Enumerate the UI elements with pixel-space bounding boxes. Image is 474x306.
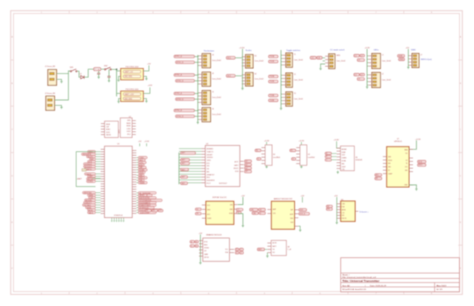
wire stubs buttons row 1 [197, 55, 200, 57]
svg-text:7690E0: 7690E0 [204, 248, 209, 250]
fuse F1 [94, 68, 101, 71]
global label LED2A [354, 73, 360, 76]
svg-text:CC mode switch: CC mode switch [330, 49, 345, 52]
connector J7 SWD [412, 53, 419, 67]
svg-text:U6: U6 [355, 157, 357, 159]
svg-text:Toggle switches: Toggle switches [286, 49, 300, 52]
svg-text:5PEMETK7: 5PEMETK7 [207, 174, 215, 176]
global label BTN4_B [176, 115, 195, 118]
M1 left pin stubs [202, 205, 206, 218]
connector J6 buttons row 4 [202, 108, 211, 122]
ground below M4 bus [199, 262, 201, 264]
wire +3.3V to U4 [266, 142, 268, 145]
wire +3.3V to U5 [300, 142, 302, 145]
svg-text:42B2: 42B2 [127, 120, 131, 122]
U3 left pin stubs [179, 149, 205, 183]
ground below J1 [60, 80, 62, 82]
svg-text:L2: L2 [361, 55, 363, 57]
wire label BTN1_A to pin [195, 56, 199, 58]
wire U7 GND [409, 185, 416, 189]
MCU left global labels [82, 151, 101, 215]
wire label SCALE2 [235, 75, 242, 77]
svg-text:BTN4_B: BTN4_B [177, 116, 185, 118]
MCU bottom pin stubs and grounds [111, 218, 124, 222]
svg-text:SDO: SDO [419, 165, 423, 167]
svg-text:S1: S1 [254, 56, 256, 58]
svg-text:PS1 K7805-1000: PS1 K7805-1000 [126, 66, 139, 68]
svg-text:CMB96: CMB96 [342, 158, 347, 160]
svg-text:SWC: SWC [400, 59, 405, 61]
svg-text:5X1: 5X1 [405, 167, 408, 169]
global label BTN2_A [174, 74, 195, 77]
svg-text:AMS1117 MODULE 3V3: AMS1117 MODULE 3V3 [274, 198, 292, 201]
svg-text:XM0: XM0 [290, 218, 293, 220]
svg-text:O1S: O1S [342, 169, 345, 171]
M4 right global labels [235, 248, 239, 251]
svg-text:MMA8452 MODULE: MMA8452 MODULE [206, 234, 222, 237]
ground below U4 [266, 165, 268, 166]
svg-text:TG3B: TG3B [270, 100, 275, 102]
M2 left pin stubs [267, 210, 271, 214]
frame row ticks and letters [11, 36, 463, 271]
global label TG2B [269, 80, 279, 83]
connector L2 LEDs [372, 72, 381, 87]
IC U5 level shifter body [300, 145, 307, 165]
svg-text:19X0K60: 19X0K60 [207, 157, 213, 159]
global label U4 output [257, 158, 261, 161]
svg-text:Scales: Scales [246, 50, 252, 52]
global label SCALE2 [226, 74, 235, 77]
wire CC labels to pins [322, 57, 325, 59]
wire toggles bus [280, 50, 282, 108]
svg-text:TG2B: TG2B [270, 81, 275, 83]
svg-text:Conn_01x04: Conn_01x04 [294, 59, 303, 61]
wire PS1 output2 to ground [143, 76, 146, 78]
global label SCALE1 [226, 56, 235, 59]
wire SWD bus [407, 49, 409, 67]
svg-text:RPB: RPB [207, 209, 210, 211]
svg-text:529: 529 [204, 251, 207, 253]
U3 right pin stubs and labels [240, 161, 244, 171]
capacitor C3 near MCU [82, 169, 86, 171]
wire MCU reset loop [76, 152, 95, 187]
svg-text:B2: B2 [153, 210, 155, 212]
svg-text:BKIMB8D: BKIMB8D [207, 149, 215, 151]
svg-text:DRT1B: DRT1B [204, 257, 209, 259]
MCU bottom right labels row [145, 209, 151, 212]
svg-text:SW2: SW2 [104, 65, 108, 67]
ground CC mode switch [319, 68, 321, 70]
svg-text:BTN3_B: BTN3_B [177, 99, 185, 101]
svg-text:J5: J5 [212, 92, 214, 94]
svg-text:J1 Screw_M3: J1 Screw_M3 [45, 65, 55, 68]
svg-text:L1: L1 [382, 54, 384, 56]
svg-text:+BATT +5V: +BATT +5V [124, 71, 134, 74]
svg-text:U3: U3 [206, 143, 208, 145]
svg-text:6NB: 6NB [230, 209, 233, 211]
MCU left pin stubs [101, 149, 105, 213]
svg-text:+12V: +12V [148, 85, 153, 87]
wire +5V to M1 [238, 197, 243, 205]
ground of toggles bus [280, 107, 282, 109]
svg-text:9MC: 9MC [342, 163, 345, 165]
svg-text:S5MR: S5MR [342, 152, 346, 154]
ground below PS1 left [117, 79, 119, 81]
svg-text:TG2A: TG2A [270, 75, 275, 78]
ground below M3 bus [336, 222, 338, 224]
ground at PS2 output [145, 100, 147, 102]
svg-text:Title: Universal Transmitter: Title: Universal Transmitter [342, 279, 380, 283]
svg-text:3EB: 3EB [388, 156, 391, 158]
svg-text:MCP23017: MCP23017 [219, 183, 227, 185]
svg-text:3V3: 3V3 [300, 210, 303, 212]
svg-text:D2N1: D2N1 [127, 128, 131, 130]
wire label BTN3_A to pin [195, 93, 199, 95]
svg-text:569: 569 [342, 215, 345, 217]
global label SWDIO [398, 55, 405, 58]
svg-text:1SAAN: 1SAAN [139, 182, 145, 185]
wire +5V to M2 [301, 197, 303, 203]
svg-text:ENSE: ENSE [127, 126, 131, 128]
ground below U8 [266, 255, 268, 257]
wire +5V to MCU [139, 143, 141, 146]
wire PS2 pin2 to ground [119, 99, 121, 102]
connector T1 toggle switch [286, 53, 293, 67]
svg-text:DISPLAY 20x4 I2C: DISPLAY 20x4 I2C [212, 196, 227, 199]
svg-text:T3: T3 [294, 93, 296, 95]
svg-text:0X: 0X [406, 160, 408, 162]
wire stubs buttons row 2 [197, 73, 200, 75]
M2 right pin stubs [295, 210, 299, 226]
M2 left global labels [250, 208, 258, 211]
svg-text:U2: U2 [129, 116, 131, 118]
wire label BTN2_A to pin [195, 74, 199, 76]
svg-text:Conn_01x04: Conn_01x04 [294, 79, 303, 81]
svg-text:Conn_01x04: Conn_01x04 [254, 79, 263, 81]
svg-text:B8GM8: B8GM8 [342, 149, 347, 151]
svg-text:U4: U4 [273, 154, 275, 156]
wire PS2 output2 to ground [143, 99, 146, 101]
svg-text:+3.3V: +3.3V [239, 47, 245, 49]
wire stubs toggle 2 [281, 74, 282, 76]
wire scales bus [242, 49, 244, 88]
svg-text:KiCad E.D.A. kicad 6.0.11: KiCad E.D.A. kicad 6.0.11 [342, 288, 367, 291]
U6 left global labels [325, 152, 331, 155]
wire U8 ground [266, 253, 268, 256]
global label U5 output [292, 158, 296, 161]
wire regulator input bus vertical [116, 69, 118, 96]
svg-text:701: 701 [272, 249, 275, 251]
svg-text:nRF24L01: nRF24L01 [394, 141, 402, 143]
svg-text:GD22: GD22 [127, 131, 131, 133]
global label SWCLK [399, 58, 405, 61]
svg-text:SB2DK: SB2DK [106, 135, 111, 137]
M3 left global labels [326, 205, 332, 208]
wire LEDs bus [366, 49, 368, 87]
ground below U5 [300, 165, 302, 166]
wire +5V bus M4 [199, 234, 201, 262]
connector SW3 CC mode [329, 54, 335, 69]
U7 right global labels [418, 160, 426, 163]
svg-text:SW1: SW1 [70, 67, 74, 69]
svg-text:05N: 05N [230, 204, 233, 206]
wire stubs buttons row 4 [197, 109, 200, 111]
svg-text:D1: D1 [80, 74, 82, 76]
svg-text:1DP: 1DP [106, 127, 109, 129]
connector J4 buttons row 2 [202, 72, 211, 86]
svg-text:Conn_01x04: Conn_01x04 [382, 79, 391, 81]
svg-text:J4: J4 [212, 73, 214, 75]
wire label SCALE1 [235, 57, 242, 59]
U3 left global labels [181, 152, 196, 155]
svg-text:+3.3V: +3.3V [299, 140, 305, 142]
wire stubs toggle 3 [281, 93, 282, 95]
ground of scales bus [241, 87, 243, 89]
wire J2 pin2 to ground [55, 105, 62, 107]
svg-text:0T4NG: 0T4NG [87, 181, 93, 183]
svg-text:B: B [326, 156, 327, 158]
wire J1 pin1 to switch [57, 71, 71, 74]
svg-text:C3: C3 [159, 210, 161, 212]
wire PS2 output to +12V [143, 87, 150, 93]
svg-text:BTN3_A: BTN3_A [175, 92, 183, 95]
svg-text:701: 701 [405, 153, 408, 155]
svg-text:J7: J7 [420, 54, 422, 56]
svg-text:Conn_01x04: Conn_01x04 [382, 60, 391, 62]
svg-text:1OK: 1OK [273, 213, 276, 215]
svg-text:LEDs: LEDs [374, 49, 379, 51]
svg-text:5KS: 5KS [207, 166, 210, 168]
svg-text:SC2: SC2 [227, 76, 231, 78]
U4 left pin stubs [261, 148, 265, 164]
svg-text:N734: N734 [204, 241, 208, 243]
svg-text:NIP: NIP [291, 210, 294, 212]
svg-text:Conn_01x04: Conn_01x04 [212, 97, 221, 99]
svg-text:T2: T2 [294, 74, 296, 76]
svg-text:L3: L3 [358, 79, 360, 81]
svg-text:CMDT: CMDT [342, 166, 346, 168]
wire U3 left feed bus [178, 153, 180, 185]
M3 right pin stub [355, 210, 358, 212]
ground at PS1 output [145, 78, 147, 80]
global label TG2A [269, 75, 279, 78]
U7 right pin stubs [409, 149, 413, 185]
wire stubs scale 1 [241, 56, 244, 58]
connector S2 scale [246, 73, 254, 87]
ground below C2 [108, 80, 110, 82]
svg-text:3V3_E: 3V3_E [300, 213, 306, 215]
svg-text:RBKB: RBKB [127, 123, 131, 125]
svg-text:50C: 50C [272, 252, 275, 254]
svg-text:J3: J3 [212, 55, 214, 57]
wire bus to PS2 pin1 [117, 92, 121, 94]
global label BTN4_A [174, 109, 195, 112]
svg-text:0N6: 0N6 [405, 170, 408, 172]
global label BTN3_A [174, 92, 195, 95]
wire CC pin3 to ground [321, 64, 326, 68]
svg-text:IPD1: IPD1 [127, 134, 131, 136]
global label CC_LED [317, 56, 323, 59]
svg-text:+3.3V: +3.3V [264, 140, 270, 142]
svg-text:KG6S0ROS: KG6S0ROS [207, 180, 215, 182]
svg-text:J6: J6 [212, 109, 214, 111]
wire J1 pin2 to ground [57, 79, 62, 81]
svg-text:Conn_01x04: Conn_01x04 [212, 78, 221, 80]
svg-text:4N0: 4N0 [388, 167, 391, 169]
M1 right global labels [236, 208, 243, 211]
wire +5V bus M3 [336, 197, 338, 222]
svg-text:1DBP50: 1DBP50 [85, 169, 91, 171]
IC U2 serial adapter left half [105, 121, 119, 137]
wire bus to PS1 pin1 [117, 70, 121, 72]
IC U4 level shifter body [265, 145, 272, 165]
svg-text:1ITES: 1ITES [207, 160, 211, 162]
M1 right pin stubs [234, 205, 238, 214]
global label LED2B [357, 78, 364, 81]
svg-text:L2: L2 [361, 74, 363, 76]
svg-text:Conn_01x04: Conn_01x04 [254, 61, 263, 63]
svg-text:BTN1_A: BTN1_A [175, 55, 183, 58]
svg-text:CMC: CMC [342, 204, 345, 206]
svg-text:R8O7X: R8O7X [342, 218, 347, 220]
svg-text:POC7: POC7 [207, 183, 211, 185]
svg-text:BTN4_A: BTN4_A [175, 109, 183, 112]
svg-text:Size: A4: Size: A4 [342, 284, 350, 287]
MCU right global labels [136, 156, 162, 214]
svg-text:Sheet: /: Sheet: / [342, 274, 350, 277]
wire M2 ground stub [298, 226, 300, 230]
svg-text:To buzzer +: To buzzer + [359, 212, 368, 214]
svg-text:BTN1_B: BTN1_B [177, 62, 185, 64]
wire U6 labels to pins [331, 153, 336, 155]
junction on regulator input bus [116, 69, 118, 71]
ground below U7 [415, 188, 417, 190]
svg-text:F1 5A: F1 5A [95, 68, 101, 71]
connector T2 toggle switch [286, 73, 293, 87]
svg-text:SCL: SCL [225, 249, 228, 251]
title block outline [341, 258, 460, 292]
wire diode D1 to fuse F1 [84, 69, 93, 77]
wire stubs LED 2 [367, 74, 368, 76]
svg-text:STM32F103: STM32F103 [114, 215, 123, 217]
svg-text:Date: 2023-05-29: Date: 2023-05-29 [370, 284, 387, 287]
M4 left global labels [190, 240, 194, 243]
wire U8 label to pin [265, 248, 268, 250]
svg-text:BTN2_B: BTN2_B [177, 80, 185, 82]
svg-text:5GMP: 5GMP [388, 173, 392, 175]
svg-text:T1: T1 [294, 54, 296, 56]
svg-text:J2 Screw_M3: J2 Screw_M3 [45, 92, 55, 95]
svg-text:R2B: R2B [342, 207, 345, 209]
svg-text:GND GND: GND GND [124, 76, 133, 78]
M3 left pin stubs [337, 204, 341, 219]
svg-text:T_off: T_off [287, 249, 291, 251]
capacitor C1 [97, 72, 100, 74]
U8 left global label [257, 248, 264, 251]
svg-text:Id: 1/1: Id: 1/1 [437, 289, 444, 291]
capacitor C2 [108, 75, 111, 77]
svg-text:PS2 K7812-1000: PS2 K7812-1000 [126, 89, 139, 91]
wire stubs toggle 1 [281, 54, 282, 56]
svg-text:BZ: BZ [327, 206, 329, 208]
U7 left pin stubs [383, 157, 387, 174]
connector L1 LEDs [372, 53, 381, 68]
wire switch SW2 to regulator bus [111, 68, 116, 70]
svg-text:Conn_01x04: Conn_01x04 [294, 98, 303, 100]
global label TG1A [269, 55, 279, 58]
ground of buttons bus [197, 121, 199, 123]
ground below J2 [60, 106, 62, 108]
svg-text:_E4BR2241E: _E4BR2241E [138, 212, 150, 214]
IC U8 body [271, 240, 286, 255]
global label CC_SW [310, 56, 316, 59]
IC U2 serial adapter right half [120, 118, 132, 138]
global label LED1B [357, 59, 364, 62]
svg-text:B604: B604 [204, 245, 208, 247]
M1 left global labels [195, 208, 201, 211]
svg-text:Conn_01x04: Conn_01x04 [212, 60, 221, 62]
title block row lines [341, 273, 460, 292]
global label U4 input [255, 149, 261, 152]
wire stubs buttons row 3 [197, 92, 200, 94]
svg-text:TG1B: TG1B [270, 61, 275, 63]
svg-text:Conn_01x04: Conn_01x04 [336, 61, 345, 63]
global label U5 input [290, 149, 296, 152]
wire switch SW1 to diode D1 [77, 71, 80, 77]
global label TG1B [269, 60, 279, 63]
svg-text:L1: L1 [355, 55, 357, 57]
ground of SWD bus [407, 66, 409, 68]
wire J2 pin1 to battery bus [55, 74, 69, 100]
svg-text:U8: U8 [287, 247, 289, 249]
ground of LEDs bus [366, 86, 368, 88]
svg-text:TG1A: TG1A [270, 55, 275, 58]
M4 left pin stubs [199, 241, 203, 257]
wire PS1 pin2 to ground [119, 76, 121, 80]
svg-text:GND GND: GND GND [124, 98, 133, 100]
svg-text:030I6MT: 030I6MT [207, 154, 213, 156]
svg-text:ULN2003: ULN2003 [355, 160, 362, 162]
frame column ticks and numbers [41, 11, 433, 295]
wire +3.3V to U7 VCC [409, 140, 416, 149]
svg-text:L1: L1 [355, 74, 357, 76]
wire +3.3V to U6 pin1 [337, 141, 341, 148]
global label BTN1_B [176, 61, 195, 64]
connector S1 scale [246, 55, 254, 69]
wire PS1 output to +5V [143, 65, 149, 71]
ground below C1 [98, 76, 100, 78]
svg-text:U1: U1 [117, 144, 119, 146]
M4 right pin stubs [229, 248, 234, 250]
U6 left pin stubs [337, 148, 341, 168]
wire stubs scale 2 [241, 74, 244, 76]
svg-text:I5N: I5N [207, 169, 209, 171]
ground below PS2 left [117, 100, 119, 102]
global label LED1A [354, 54, 360, 57]
wire fuse F1 to switch SW2 [101, 68, 105, 70]
ground below M1 [242, 225, 244, 227]
connector T3 toggle switch [286, 92, 293, 106]
ground below M2 [299, 229, 301, 231]
global label BTN3_B [176, 98, 195, 101]
ground below U6 [337, 171, 339, 172]
global label BTN1_A [174, 55, 195, 58]
svg-text:S2: S2 [254, 74, 256, 76]
svg-text:ER4B: ER4B [106, 124, 110, 126]
svg-text:K08: K08 [291, 222, 294, 224]
wire label BTN4_A to pin [195, 110, 199, 112]
svg-text:L2: L2 [382, 73, 384, 75]
